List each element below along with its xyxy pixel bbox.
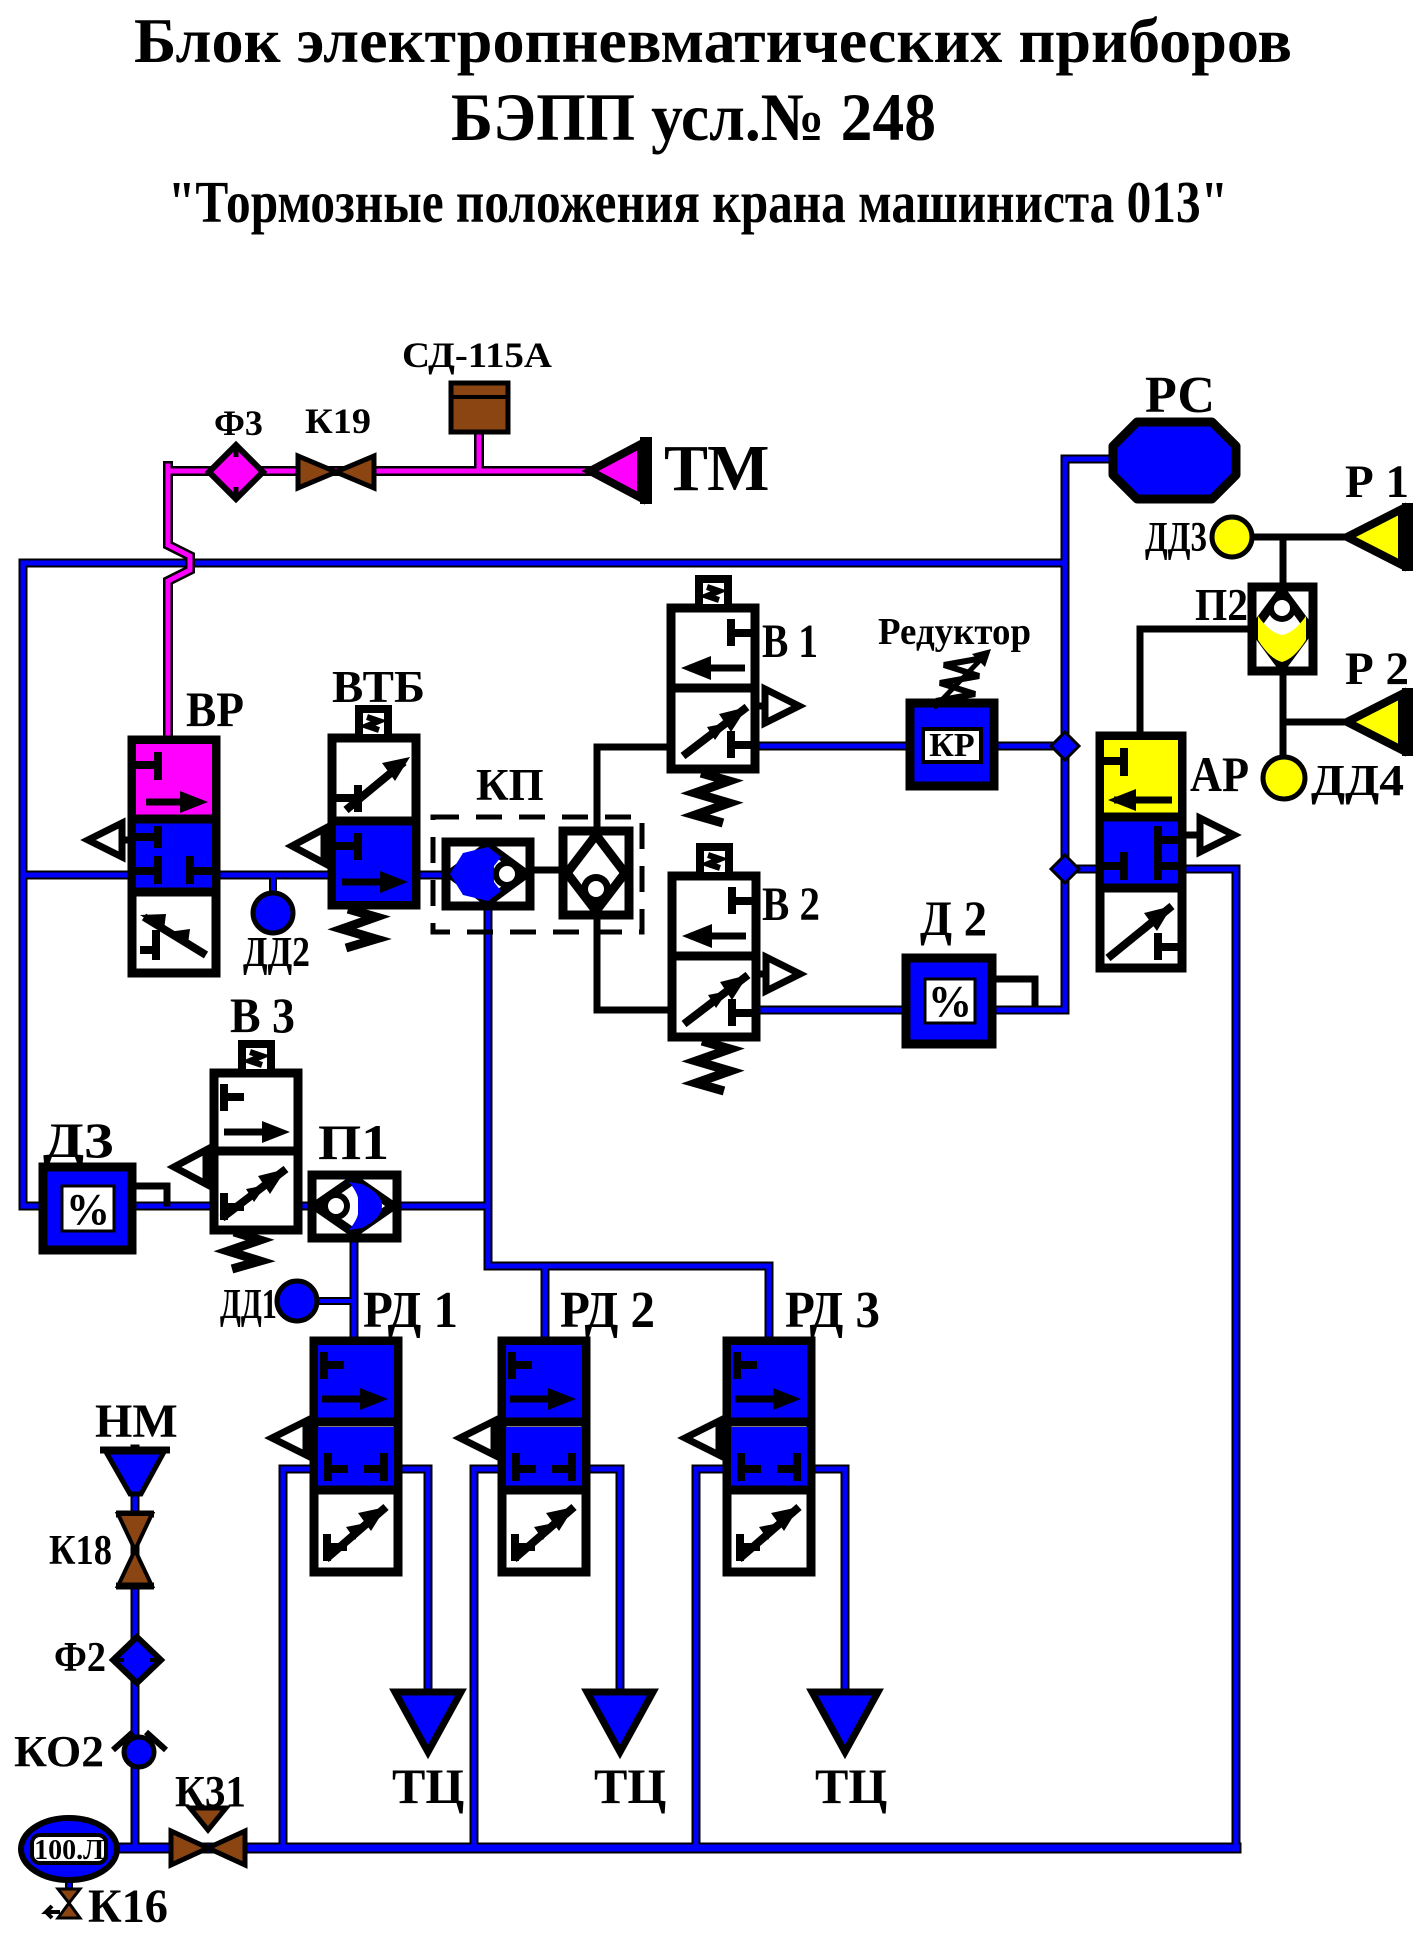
svg-text:ДД4: ДД4	[1311, 756, 1404, 805]
svg-text:%: %	[66, 1185, 110, 1234]
svg-text:ДД3: ДД3	[1145, 515, 1207, 561]
horn R2	[1347, 688, 1413, 756]
shuttle P2	[1252, 587, 1313, 671]
wire: AR feed from junction	[1065, 865, 1100, 874]
valve V2	[672, 847, 800, 1091]
exhaust arrow of VR	[88, 823, 132, 857]
wire: right riser to AR	[1182, 869, 1236, 1848]
svg-text:Блок электропневматических при: Блок электропневматических приборов	[134, 5, 1292, 76]
valve RD2	[460, 1341, 586, 1572]
wire: P2 bottom to DD4	[1280, 671, 1287, 757]
wire: RD2 stem	[541, 1266, 550, 1341]
svg-text:РД 2: РД 2	[560, 1282, 655, 1339]
svg-text:К19: К19	[305, 401, 371, 441]
wire: left vertical main	[23, 563, 43, 1206]
wire: V1 left to KP right square to V2 left	[597, 747, 672, 1010]
svg-text:РД 3: РД 3	[785, 1282, 880, 1339]
exhaust arrow of V3	[174, 1150, 214, 1184]
svg-text:Ф2: Ф2	[54, 1635, 106, 1681]
valve K31 three-way	[171, 1808, 245, 1865]
throttle D2	[906, 958, 992, 1044]
valve VTB	[332, 709, 416, 948]
svg-text:К31: К31	[175, 1767, 246, 1816]
wire: D2 bracket	[992, 979, 1035, 1004]
reducer spring arrow (Reduktor)	[934, 649, 991, 708]
svg-text:"Тормозные положения крана маш: "Тормозные положения крана машиниста 013…	[168, 169, 1228, 235]
exhaust arrow of VTB	[292, 829, 332, 863]
TC arrow 2	[587, 1692, 653, 1752]
svg-text:НМ: НМ	[95, 1395, 178, 1448]
wire: TM horizontal + down with hop over blue header	[168, 432, 643, 742]
valve VR (air distributor)	[132, 740, 216, 973]
wire: RD1 TC branch	[397, 1469, 428, 1694]
valve RD3	[685, 1341, 811, 1572]
svg-text:ДД2: ДД2	[243, 930, 310, 976]
svg-text:АР: АР	[1190, 746, 1249, 802]
pressure switch SD-115A	[451, 383, 508, 432]
svg-text:КР: КР	[929, 727, 974, 764]
horn R1	[1347, 503, 1413, 571]
wire: RD3 TC branch	[812, 1469, 845, 1694]
wire: P1 right line	[397, 1202, 488, 1211]
wire: RD2 TC branch	[588, 1469, 620, 1694]
svg-text:В 2: В 2	[762, 878, 820, 931]
svg-text:Д3: Д3	[43, 1112, 114, 1168]
junction node at AR line	[1051, 855, 1079, 883]
exhaust arrow of AR	[1182, 818, 1234, 852]
sensor DD4	[1263, 757, 1305, 799]
svg-text:КП: КП	[476, 760, 544, 810]
wire: V1 to KR to junction	[755, 742, 1065, 751]
TM horn	[590, 437, 652, 504]
valve RD1	[272, 1341, 398, 1572]
svg-text:БЭПП усл.№ 248: БЭПП усл.№ 248	[451, 79, 936, 155]
svg-text:ВТБ: ВТБ	[332, 661, 425, 712]
svg-text:ТМ: ТМ	[664, 432, 769, 505]
svg-text:ТЦ: ТЦ	[594, 1758, 666, 1814]
svg-text:Р 1: Р 1	[1345, 456, 1409, 508]
wire: branch to R2	[1283, 719, 1347, 726]
wire: DD3 to R1	[1252, 534, 1347, 541]
wire: P2 top stem	[1280, 537, 1287, 587]
wire: RD1 left loop	[283, 1469, 314, 1848]
svg-text:100.Л: 100.Л	[34, 1835, 104, 1866]
wire: central riser	[992, 459, 1065, 1010]
TC arrow 3	[812, 1692, 878, 1752]
wire: DD1 stub	[317, 1297, 354, 1305]
wire: KP down pipe	[484, 898, 493, 1206]
TC arrow 1	[395, 1692, 461, 1752]
sensor DD3	[1212, 517, 1252, 557]
svg-text:РС: РС	[1145, 367, 1215, 424]
svg-text:В 1: В 1	[762, 615, 818, 668]
wire: top header pipe	[23, 459, 1236, 1896]
svg-text:П2: П2	[1195, 580, 1248, 630]
wire: D3 bracket	[132, 1186, 167, 1203]
wire: distribution to RD2 RD3	[488, 1206, 769, 1341]
svg-text:ТЦ: ТЦ	[815, 1758, 887, 1814]
valve K16	[46, 1889, 80, 1918]
sensor DD1	[277, 1281, 317, 1321]
wire: P1 bottom stem to RD1	[350, 1238, 359, 1341]
svg-text:В 3: В 3	[230, 987, 295, 1043]
shuttle P1	[312, 1175, 397, 1238]
wire: bottom manifold	[100, 1843, 1236, 1854]
svg-text:Ф3: Ф3	[214, 403, 263, 443]
wire: NM chain	[131, 1449, 140, 1848]
svg-text:Редуктор: Редуктор	[878, 611, 1031, 653]
check valve KO2	[113, 1732, 166, 1767]
wire: P2 left to AR top	[1140, 629, 1252, 736]
wire: mid horizontal feed y875	[23, 871, 452, 880]
filter F3	[209, 445, 263, 499]
valve V1	[671, 579, 799, 823]
svg-text:Р 2: Р 2	[1345, 643, 1409, 695]
svg-text:ВР: ВР	[186, 681, 244, 737]
junction node at KR line	[1051, 732, 1079, 760]
svg-text:КО2: КО2	[14, 1727, 104, 1776]
valve V3	[214, 1044, 298, 1269]
svg-text:Д 2: Д 2	[920, 890, 987, 946]
svg-text:К16: К16	[88, 1880, 168, 1933]
tank 100L	[21, 1818, 117, 1880]
wire: DD2 stub	[269, 875, 277, 895]
svg-text:%: %	[928, 977, 972, 1026]
svg-text:П1: П1	[318, 1114, 389, 1170]
KP check-valve group dashed box	[433, 817, 642, 932]
wire: KP squares link	[530, 867, 563, 874]
svg-text:ДД1: ДД1	[220, 1282, 277, 1328]
KP right check valve	[563, 831, 629, 915]
reservoir RS	[1113, 422, 1236, 499]
valve K18	[116, 1514, 154, 1586]
throttle D3	[43, 1167, 132, 1250]
feed horn NM	[100, 1450, 170, 1494]
svg-text:К18: К18	[49, 1528, 112, 1574]
KP left check valve	[446, 842, 530, 906]
wire: D3 to V3 to P1	[132, 1202, 312, 1211]
valve K19	[298, 456, 374, 488]
filter F2	[113, 1637, 161, 1683]
relay valve AR	[1100, 736, 1182, 968]
svg-text:СД-115А: СД-115А	[402, 335, 552, 375]
wire: V2 to D2	[752, 1006, 906, 1015]
svg-text:ТЦ: ТЦ	[392, 1758, 464, 1814]
svg-text:РД 1: РД 1	[363, 1282, 458, 1339]
wire: RD2 left loop	[474, 1469, 502, 1848]
wire: RD3 left loop	[696, 1469, 727, 1848]
wire: K16 stem	[65, 1875, 73, 1896]
wire: RS tank stub	[1065, 455, 1117, 464]
sensor DD2	[253, 893, 293, 933]
reducer KR box	[910, 703, 994, 786]
